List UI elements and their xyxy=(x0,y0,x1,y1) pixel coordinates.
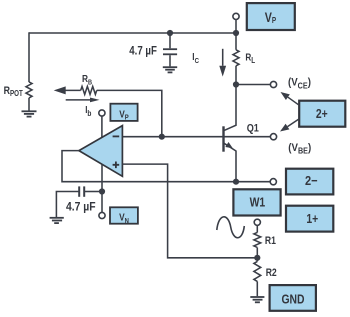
ground (below C1) xyxy=(163,67,177,72)
svg-text:(VBE): (VBE) xyxy=(288,142,311,155)
svg-text:2−: 2− xyxy=(305,173,318,188)
svg-text:Ib: Ib xyxy=(85,104,92,118)
ground (below R2) xyxy=(250,297,264,302)
svg-text:RL: RL xyxy=(245,51,255,65)
capacitor C2 4.7uF xyxy=(56,186,99,217)
svg-text:IC: IC xyxy=(192,51,199,65)
wire op-amp plus input to R1R2 node xyxy=(122,164,254,258)
wire op-amp Vminus pin xyxy=(101,164,103,212)
svg-text:RPOT: RPOT xyxy=(4,85,24,98)
capacitor C1 4.7uF (top rail decoupling) xyxy=(129,33,177,66)
svg-text:R1: R1 xyxy=(265,235,277,247)
resistor R1 xyxy=(254,225,277,257)
box 2- xyxy=(286,169,333,195)
ground (below C2) xyxy=(50,218,64,223)
box W1 xyxy=(233,189,280,215)
node junction (R1-R2 divider) xyxy=(254,255,260,261)
wire collector to VCE terminal xyxy=(236,84,270,86)
current label IC with arrow xyxy=(192,49,226,77)
box VP (top supply label) xyxy=(247,3,295,30)
node junction (RL top on rail) xyxy=(233,30,239,36)
terminal op-amp V+ pin (open circle) xyxy=(99,110,105,137)
current label Ib with arrow xyxy=(66,98,100,119)
node junction (collector) xyxy=(233,81,239,87)
box GND xyxy=(270,285,316,311)
node junction (cap C2 tap on Vminus pin) xyxy=(99,188,105,194)
sine wave symbol xyxy=(217,217,245,238)
wire op-amp output wrap (apex to emitter node) xyxy=(62,151,270,182)
resistor RB with wiper arrow xyxy=(54,72,162,137)
terminal VN (open circle) xyxy=(99,212,105,218)
terminal VCE (open circle) xyxy=(270,81,276,87)
svg-text:4.7 µF: 4.7 µF xyxy=(129,45,157,58)
ground (below RPOT) xyxy=(22,111,37,116)
resistor RL xyxy=(233,33,256,85)
label (VCE) xyxy=(288,77,311,90)
resistor R2 xyxy=(254,258,277,296)
node junction (emitter) xyxy=(233,179,239,185)
terminal VP (open circle) xyxy=(233,13,239,33)
terminal 2- (open circle) xyxy=(270,179,276,185)
svg-text:W1: W1 xyxy=(250,195,266,209)
arrow 2+ to VCE xyxy=(281,92,300,105)
box VP (op-amp supply label) xyxy=(110,104,137,122)
node junction (cap C1 on rail) xyxy=(167,30,173,36)
svg-text:(VCE): (VCE) xyxy=(288,77,311,90)
svg-text:4.7 µF: 4.7 µF xyxy=(66,201,96,214)
terminal W1 (open circle) xyxy=(254,219,260,225)
svg-text:1+: 1+ xyxy=(306,212,318,226)
terminal VBE (open circle) xyxy=(270,134,276,140)
box VN xyxy=(110,207,138,225)
op-amp U1 xyxy=(79,126,123,177)
svg-text:2+: 2+ xyxy=(316,107,328,121)
resistor RPOT xyxy=(4,82,32,111)
wire top rail xyxy=(29,32,236,34)
label (VBE) xyxy=(288,142,311,155)
transistor Q1 xyxy=(224,85,260,182)
svg-text:Q1: Q1 xyxy=(247,122,259,134)
svg-text:GND: GND xyxy=(281,292,304,306)
wire left drop to RPOT xyxy=(28,32,30,82)
box 2+ xyxy=(299,101,345,127)
arrow 2+ to VBE xyxy=(280,119,299,132)
wire base line (op-amp minus input to VBE terminal) xyxy=(122,136,270,138)
node junction (RB to base wire) xyxy=(159,134,165,140)
svg-text:R2: R2 xyxy=(266,267,278,279)
box 1+ xyxy=(286,206,333,232)
